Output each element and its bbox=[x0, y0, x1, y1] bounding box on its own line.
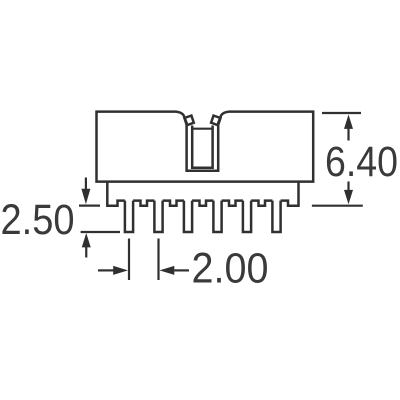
base notch 3-4 bbox=[192, 201, 213, 206]
dim 2.50 down arrow bbox=[81, 178, 90, 205]
pin 5 bbox=[243, 201, 251, 232]
slot chamfer ledge bbox=[192, 128, 212, 130]
pin 1 bbox=[125, 201, 133, 232]
pin 6 bbox=[272, 201, 280, 232]
base right section bbox=[281, 182, 299, 206]
base notch 1-2 bbox=[133, 201, 154, 206]
dim 2.00 left arrow bbox=[160, 266, 190, 275]
svg-text:2.00: 2.00 bbox=[192, 245, 269, 293]
dim 2.50 upper extension line bbox=[79, 205, 100, 207]
dim 2.50 up arrow bbox=[82, 233, 91, 258]
dim 6.40 bottom extension line bbox=[312, 205, 363, 207]
dim 2.00 extension line pin1 bbox=[128, 239, 130, 281]
dim 2.50 lower extension line bbox=[81, 231, 120, 233]
base notch 2-3 bbox=[163, 201, 184, 206]
svg-text:6.40: 6.40 bbox=[325, 138, 398, 186]
pin 4 bbox=[213, 201, 221, 232]
slot left chamfer bbox=[184, 116, 193, 126]
pin 3 bbox=[184, 201, 192, 232]
pin 2 bbox=[154, 201, 162, 232]
dim 6.40 up arrow bbox=[344, 115, 353, 141]
base notch 4-5 bbox=[222, 201, 243, 206]
slot right chamfer bbox=[211, 116, 220, 126]
slot inner wall bbox=[192, 126, 212, 168]
connector body (shroud outline with top key slot) bbox=[97, 112, 314, 182]
dim 6.40 top extension line bbox=[322, 112, 361, 114]
svg-text:2.50: 2.50 bbox=[1, 196, 75, 244]
dim 6.40 down arrow bbox=[344, 182, 353, 205]
dim 2.00 extension line pin2 bbox=[157, 239, 159, 281]
base left section bbox=[107, 182, 125, 206]
dim 2.00 right arrow bbox=[98, 266, 128, 275]
base notch 5-6 bbox=[251, 201, 272, 206]
